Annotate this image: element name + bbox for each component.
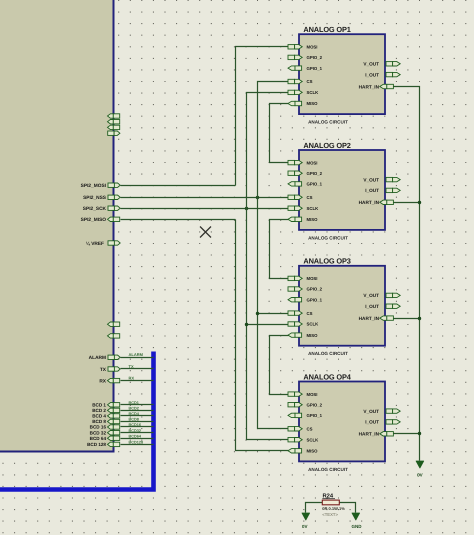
wire BCD 1 to bus — [121, 404, 154, 406]
resistor R24 body — [322, 500, 339, 505]
OP1 pin HART_IN — [359, 84, 394, 89]
wire HART_IN bus vertical to 0V — [394, 87, 420, 461]
label ANALOG OP1 — [303, 25, 350, 34]
label ANALOG CIRCUIT (OP1) — [308, 120, 348, 125]
junction HART OP3 — [418, 317, 421, 320]
svg-text:BCD8: BCD8 — [129, 418, 139, 422]
svg-text:BCD 128: BCD 128 — [87, 442, 106, 447]
wire CS branch to OP3 — [258, 313, 289, 315]
svg-text:MISO: MISO — [307, 101, 319, 106]
svg-text:ANALOG CIRCUIT: ANALOG CIRCUIT — [308, 351, 348, 356]
svg-text:BCD 8: BCD 8 — [92, 419, 106, 424]
svg-text:ANALOG OP3: ANALOG OP3 — [303, 257, 350, 266]
svg-text:ALARM: ALARM — [89, 355, 106, 361]
OP2 pin GPIO_1 — [288, 182, 323, 187]
OP4 pin GPIO_1 — [288, 413, 323, 418]
wire BCD 16 to bus — [121, 426, 154, 428]
svg-text:GPIO_1: GPIO_1 — [307, 413, 323, 418]
wire BCD 4 to bus — [121, 415, 154, 417]
OP1 pin SCLK — [288, 90, 319, 95]
OP3 pin CS — [288, 311, 313, 316]
svg-text:¼ VREF: ¼ VREF — [86, 241, 104, 247]
ground arrow 0V (HART bus) — [416, 461, 424, 468]
svg-text:TX: TX — [129, 364, 134, 369]
MCU unconnected pin (mid 2) — [108, 334, 120, 338]
svg-text:ANALOG OP4: ANALOG OP4 — [303, 372, 351, 381]
svg-text:TX: TX — [100, 367, 107, 373]
OP3 pin MISO — [288, 333, 318, 338]
svg-text:RX: RX — [129, 375, 135, 380]
wire BCD 64 to bus — [121, 438, 154, 440]
MCU pin BCD 128 — [87, 442, 120, 447]
svg-text:0V: 0V — [302, 524, 308, 529]
OP4 pin SCLK — [288, 437, 319, 442]
svg-text:RX: RX — [99, 379, 106, 385]
OP1 pin MISO — [288, 101, 318, 106]
OP2 pin HART_IN — [359, 200, 394, 205]
OP4 pin GPIO_2 — [288, 402, 323, 407]
OP3 pin HART_IN — [359, 316, 394, 321]
svg-text:MISO: MISO — [307, 217, 319, 222]
OP1 pin CS — [288, 79, 313, 84]
svg-text:BCD32: BCD32 — [129, 429, 141, 433]
wire HART_IN branch OP4 — [394, 433, 420, 435]
svg-text:CS: CS — [307, 79, 313, 84]
OP4 pin HART_IN — [359, 432, 394, 437]
svg-text:0R 0.1W 1%: 0R 0.1W 1% — [322, 506, 345, 511]
OP1 pin I_OUT — [365, 72, 400, 77]
svg-text:BCD 4: BCD 4 — [92, 414, 106, 419]
junction NSS/CS bus — [256, 196, 259, 199]
OP2 pin GPIO_2 — [288, 171, 323, 176]
OP4 pin V_OUT — [363, 409, 400, 414]
net label BCD2 — [129, 407, 139, 411]
label ANALOG CIRCUIT (OP2) — [308, 235, 348, 240]
svg-text:BCD 1: BCD 1 — [92, 403, 106, 408]
svg-text:SCLK: SCLK — [307, 322, 320, 327]
svg-text:GPIO_1: GPIO_1 — [307, 66, 323, 71]
svg-text:HART_IN: HART_IN — [359, 316, 380, 321]
wire OP1 MISO to OP2 MOSI — [270, 104, 289, 163]
analog output module U3 ANALOG OP3 block body — [299, 266, 385, 346]
svg-text:HART_IN: HART_IN — [359, 432, 380, 437]
junction SCLK OP3 — [245, 323, 248, 326]
OP2 pin CS — [288, 195, 313, 200]
net label BCD32 — [129, 429, 141, 433]
svg-text:BCD4: BCD4 — [129, 412, 140, 416]
svg-text:MISO: MISO — [307, 333, 319, 338]
label 0V (R24) — [302, 524, 308, 529]
svg-text:ANALOG CIRCUIT: ANALOG CIRCUIT — [308, 235, 348, 240]
label ANALOG OP3 — [303, 257, 350, 266]
MCU pin BCD 16 — [90, 425, 120, 430]
svg-text:CS: CS — [307, 427, 313, 432]
svg-text:GPIO_2: GPIO_2 — [307, 171, 323, 176]
label 0R 0.1W 1% — [322, 506, 345, 511]
svg-text:SCLK: SCLK — [307, 206, 320, 211]
svg-text:BCD 16: BCD 16 — [90, 425, 107, 430]
wire CS bus vertical — [258, 82, 289, 429]
junction HART OP2 — [418, 201, 421, 204]
svg-text:CS: CS — [307, 195, 313, 200]
wire BCD 32 to bus — [121, 432, 154, 434]
MCU pin SPI2_SCK — [83, 206, 120, 212]
junction CS OP3 — [256, 312, 259, 315]
wire BCD 2 to bus — [121, 410, 154, 412]
MCU pin TX — [100, 367, 120, 373]
label ANALOG CIRCUIT (OP4) — [308, 467, 348, 472]
OP2 pin V_OUT — [363, 177, 400, 182]
label R24 — [322, 493, 335, 500]
wire RX to bus — [121, 380, 154, 382]
power arrow 0V (R24 left) — [302, 513, 310, 520]
svg-text:ALARM: ALARM — [129, 352, 144, 357]
OP4 pin CS — [288, 427, 313, 432]
svg-text:BCD1: BCD1 — [129, 401, 139, 405]
OP1 pin V_OUT — [363, 62, 400, 67]
MCU unconnected pin (top group 3) — [108, 125, 120, 129]
svg-text:SCLK: SCLK — [307, 437, 320, 442]
svg-text:SPI2_SCK: SPI2_SCK — [83, 206, 107, 212]
MCU unconnected pin (top group 4) — [108, 131, 120, 135]
svg-text:BCD 2: BCD 2 — [92, 408, 106, 413]
wire BCD 8 to bus — [121, 421, 154, 423]
net label ALARM — [129, 352, 144, 357]
wire BCD 128 to bus — [121, 444, 154, 446]
wire SPI2_MISO from MCU to drop — [121, 219, 236, 221]
wire HART_IN branch OP3 — [394, 318, 420, 320]
OP2 pin MOSI — [288, 160, 317, 165]
bus (thick blue) from BCD/ALARM pins to sheet edge — [0, 352, 154, 490]
wire SCLK branch to OP3 — [247, 324, 289, 326]
MCU unconnected pin (mid 1) — [108, 322, 120, 326]
OP4 pin MISO — [288, 449, 318, 454]
OP3 pin GPIO_2 — [288, 287, 323, 292]
svg-text:BCD2: BCD2 — [129, 407, 139, 411]
net label BCD16 — [129, 423, 141, 427]
wire SPI2_SCK from MCU to OP2 SCLK — [121, 208, 289, 210]
MCU pin BCD 2 — [92, 408, 119, 413]
label 0V (HART bus) — [417, 473, 423, 478]
OP2 pin MISO — [288, 217, 318, 222]
net label BCD8 — [129, 418, 139, 422]
svg-text:I_OUT: I_OUT — [365, 304, 379, 309]
OP3 pin SCLK — [288, 322, 319, 327]
MCU pin RX — [99, 378, 119, 384]
label ANALOG CIRCUIT (OP3) — [308, 351, 348, 356]
svg-text:GPIO_2: GPIO_2 — [307, 402, 323, 407]
svg-text:I_OUT: I_OUT — [365, 188, 379, 193]
svg-text:BCD64: BCD64 — [129, 434, 142, 438]
svg-text:BCD128: BCD128 — [129, 441, 144, 445]
svg-text:SPI2_MISO: SPI2_MISO — [81, 217, 107, 223]
svg-text:HART_IN: HART_IN — [359, 84, 380, 89]
wire SPI2_NSS from MCU to OP2 CS — [121, 197, 289, 199]
svg-text:0V: 0V — [417, 473, 423, 478]
svg-text:GND: GND — [352, 524, 363, 529]
svg-text:GPIO_1: GPIO_1 — [307, 182, 323, 187]
no-connect X marker — [200, 227, 211, 238]
net label RX — [129, 375, 135, 380]
svg-text:BCD 64: BCD 64 — [90, 436, 107, 441]
MCU pin SPI2_NSS — [83, 195, 120, 201]
label <TEXT> — [322, 512, 338, 517]
svg-text:ANALOG OP1: ANALOG OP1 — [303, 25, 350, 34]
svg-text:MISO: MISO — [307, 449, 319, 454]
net label BCD64 — [129, 434, 142, 438]
label ANALOG OP2 — [303, 141, 350, 150]
MCU pin BCD 32 — [90, 430, 120, 435]
svg-text:BCD16: BCD16 — [129, 423, 141, 427]
OP4 pin I_OUT — [365, 420, 400, 425]
wire OP2 MISO to OP3 MOSI — [270, 220, 289, 279]
resistor R24 wires — [306, 503, 356, 513]
svg-text:ANALOG CIRCUIT: ANALOG CIRCUIT — [308, 467, 348, 472]
OP3 pin MOSI — [288, 276, 317, 281]
svg-text:GPIO_2: GPIO_2 — [307, 287, 323, 292]
MCU pin SPI2_MOSI — [81, 183, 121, 189]
OP2 pin SCLK — [288, 206, 319, 211]
net label BCD4 — [129, 412, 140, 416]
svg-text:MOSI: MOSI — [307, 160, 318, 165]
wire TX to bus — [121, 368, 154, 370]
MCU pin BCD 64 — [90, 436, 120, 441]
microcontroller U1 body (large component, partially off-sheet left) — [0, 0, 114, 452]
wire SCLK bus vertical — [247, 93, 289, 440]
MCU unconnected pin (top group 1) — [108, 114, 120, 118]
analog output module U1 ANALOG OP1 block body — [299, 34, 385, 114]
svg-text:V_OUT: V_OUT — [363, 293, 379, 298]
svg-text:I_OUT: I_OUT — [365, 72, 379, 77]
svg-text:GPIO_2: GPIO_2 — [307, 55, 323, 60]
MCU pin BCD 1 — [92, 403, 119, 408]
svg-text:SPI2_NSS: SPI2_NSS — [83, 195, 107, 201]
analog output module U2 ANALOG OP2 block body — [299, 150, 385, 230]
OP3 pin GPIO_1 — [288, 297, 323, 302]
OP1 pin GPIO_1 — [288, 66, 323, 71]
svg-text:SCLK: SCLK — [307, 90, 320, 95]
wire SPI2_MOSI from MCU to riser — [121, 185, 236, 187]
MCU pin ALARM — [89, 355, 121, 361]
net label TX — [129, 364, 134, 369]
svg-text:<TEXT>: <TEXT> — [322, 512, 338, 517]
OP3 pin V_OUT — [363, 293, 400, 298]
analog output module U4 ANALOG OP4 block body — [299, 382, 385, 462]
MCU pin BCD 8 — [92, 419, 119, 424]
OP1 pin MOSI — [288, 45, 317, 50]
wire ALARM to bus — [121, 357, 154, 359]
MCU pin SPI2_MISO — [81, 217, 120, 223]
label ANALOG OP4 — [303, 372, 351, 381]
svg-text:MOSI: MOSI — [307, 276, 318, 281]
svg-text:ANALOG OP2: ANALOG OP2 — [303, 141, 350, 150]
net label BCD1 — [129, 401, 139, 405]
svg-text:V_OUT: V_OUT — [363, 62, 379, 67]
junction HART OP4 — [418, 432, 421, 435]
wire MISO drop down to OP4 MISO — [236, 220, 289, 451]
svg-text:SPI2_MOSI: SPI2_MOSI — [81, 183, 107, 189]
label GND — [352, 524, 363, 529]
MCU unconnected pin (top group 2) — [108, 120, 120, 124]
OP1 pin GPIO_2 — [288, 55, 323, 60]
svg-text:V_OUT: V_OUT — [363, 177, 379, 182]
svg-text:I_OUT: I_OUT — [365, 420, 379, 425]
OP4 pin MOSI — [288, 392, 317, 397]
svg-text:MOSI: MOSI — [307, 392, 318, 397]
MCU pin 1/4VREF (unconnected) — [86, 241, 120, 247]
svg-text:HART_IN: HART_IN — [359, 200, 380, 205]
svg-text:CS: CS — [307, 311, 313, 316]
svg-text:GPIO_1: GPIO_1 — [307, 297, 323, 302]
OP2 pin I_OUT — [365, 188, 400, 193]
svg-text:BCD 32: BCD 32 — [90, 430, 107, 435]
wire MOSI riser up to OP1 MOSI — [236, 47, 289, 186]
MCU pin BCD 4 — [92, 414, 119, 419]
wire HART_IN branch OP2 — [394, 202, 420, 204]
svg-text:V_OUT: V_OUT — [363, 409, 379, 414]
svg-text:MOSI: MOSI — [307, 45, 318, 50]
svg-text:ANALOG CIRCUIT: ANALOG CIRCUIT — [308, 120, 348, 125]
ground arrow GND (R24 right) — [352, 513, 360, 520]
OP3 pin I_OUT — [365, 304, 400, 309]
wire OP3 MISO to OP4 MOSI — [270, 336, 289, 395]
net label BCD128 — [129, 441, 144, 445]
junction SCK/SCLK bus — [245, 207, 248, 210]
